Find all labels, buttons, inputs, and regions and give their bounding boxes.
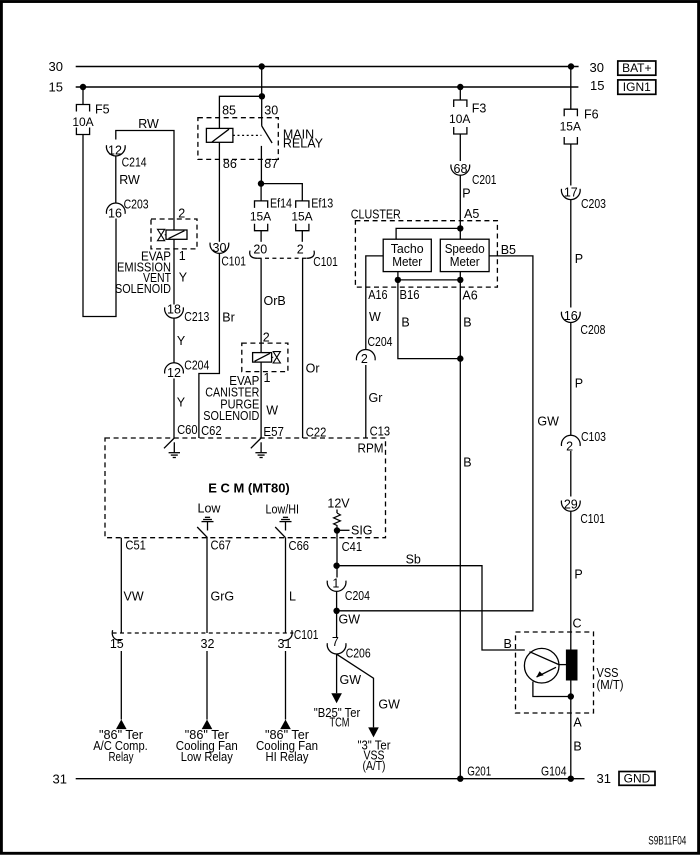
svg-text:31: 31 [597, 771, 611, 786]
junction bus15 / F3 [457, 84, 463, 90]
svg-text:C101: C101 [313, 255, 338, 269]
connector C101 pin 29 [561, 501, 580, 512]
wire C101-29 to VSS P [570, 512, 572, 651]
vent solenoid valve symbol [158, 229, 165, 240]
wire to Ef14 [260, 184, 262, 201]
svg-text:P: P [575, 252, 583, 266]
svg-text:Relay: Relay [109, 750, 135, 764]
wire A6 B down to G201 [459, 280, 461, 779]
svg-text:29: 29 [564, 498, 578, 512]
svg-text:C101: C101 [221, 255, 246, 269]
wire C204-2 to ECM C13 Gr [365, 365, 367, 438]
wire C206 to TCM [336, 654, 338, 693]
IGN1 terminal box [618, 80, 656, 94]
svg-text:B: B [401, 316, 409, 330]
wire C67 GrG [206, 538, 208, 633]
svg-text:GND: GND [624, 771, 651, 785]
wire F5 down and u-turn up to C203 [83, 135, 116, 317]
vent solenoid coil [166, 230, 187, 239]
svg-text:1: 1 [264, 371, 271, 385]
wire bus30 to fuse F6 [570, 67, 572, 110]
VSS collector bar [566, 650, 577, 680]
svg-text:C22: C22 [306, 426, 327, 440]
svg-text:W: W [369, 310, 381, 324]
wire C214 to C203 RW [115, 156, 117, 203]
svg-text:20: 20 [253, 243, 267, 257]
svg-text:86: 86 [223, 157, 237, 171]
svg-text:B16: B16 [400, 288, 420, 302]
tacho meter box [383, 239, 431, 271]
svg-text:E57: E57 [263, 425, 284, 439]
svg-text:B5: B5 [501, 243, 516, 257]
EVAP emission vent solenoid dashed box [151, 219, 197, 249]
purge solenoid valve symbol [273, 352, 280, 363]
wire C208 to C103 P [570, 323, 572, 435]
svg-text:15: 15 [49, 80, 63, 95]
connector C213 pin 18 [165, 307, 184, 318]
svg-text:C101: C101 [580, 512, 605, 526]
svg-text:F6: F6 [584, 108, 599, 122]
relay switch blade [262, 126, 272, 143]
connector C204 pin 12 [165, 363, 184, 374]
VSS transistor [524, 648, 559, 683]
svg-text:C203: C203 [581, 197, 606, 211]
cluster dashed box [355, 221, 497, 287]
connector C201 pin 68 [451, 165, 470, 176]
bus 31 (GND rail) [76, 778, 585, 780]
wire to AC relay [120, 651, 122, 720]
junction SIG [334, 527, 340, 533]
wire bus15 to fuse F5 [82, 87, 84, 105]
svg-text:85: 85 [222, 104, 236, 118]
svg-text:Y: Y [177, 396, 186, 410]
wire C41 down [336, 538, 338, 578]
svg-text:C62: C62 [201, 424, 222, 438]
svg-text:P: P [462, 187, 470, 201]
svg-text:RW: RW [119, 173, 140, 187]
wire Ef13 to C101 pin 2 [301, 231, 303, 242]
connector C101 pins 20/2 dashed [250, 251, 258, 259]
svg-text:Low: Low [198, 502, 222, 516]
svg-text:HI Relay: HI Relay [266, 750, 310, 764]
svg-text:(A/T): (A/T) [363, 759, 386, 773]
wire C206 branch to VSS AT [337, 654, 374, 727]
svg-text:SOLENOID: SOLENOID [115, 282, 171, 296]
connector C203 pin 17 [561, 189, 580, 200]
svg-text:2: 2 [263, 331, 270, 345]
svg-text:16: 16 [564, 309, 578, 323]
junction bus30 / relay 30 [259, 63, 265, 69]
wire to cooling fan hi relay [285, 651, 287, 720]
wire vent pin1 to C213 Y [173, 239, 175, 304]
wire C103 to C101-29 [570, 451, 572, 497]
svg-text:B: B [504, 637, 512, 651]
svg-text:F3: F3 [472, 101, 487, 115]
svg-text:GW: GW [339, 612, 361, 626]
svg-text:Y: Y [179, 271, 188, 285]
wire C51 VW [120, 538, 122, 633]
svg-text:Meter: Meter [450, 255, 480, 269]
svg-text:GW: GW [537, 415, 559, 429]
svg-text:(M/T): (M/T) [597, 678, 624, 692]
svg-text:IGN1: IGN1 [623, 80, 651, 94]
svg-text:Ef14: Ef14 [270, 197, 292, 211]
svg-text:L: L [289, 590, 296, 604]
wire bus15 to fuse F3 [459, 87, 461, 100]
junction bus30 / F6 [568, 63, 574, 69]
junction 87 split [258, 180, 264, 186]
svg-text:W: W [266, 404, 278, 418]
svg-text:RW: RW [138, 117, 159, 131]
svg-text:C51: C51 [125, 539, 146, 553]
connector C203 pin 16 [106, 203, 125, 214]
tacho left pin to A16 [366, 256, 383, 287]
GND terminal box [619, 772, 655, 786]
BAT+ terminal box [618, 61, 656, 75]
svg-text:P: P [575, 376, 583, 390]
svg-text:S9B11F04: S9B11F04 [648, 836, 686, 848]
wire C66 L [285, 538, 287, 633]
wire Br from C101-30 to ECM C62 [199, 254, 220, 438]
svg-text:SIG: SIG [351, 524, 373, 538]
connector C101 pin 30 [210, 243, 229, 254]
svg-text:C201: C201 [472, 173, 497, 187]
relay actuation dotted link [233, 134, 262, 136]
svg-text:BAT+: BAT+ [622, 61, 651, 75]
connector C103 pin 2 [561, 435, 580, 446]
bus 15 (IGN1 rail) [76, 86, 579, 88]
purge solenoid coil [253, 353, 272, 363]
svg-text:C208: C208 [580, 323, 605, 337]
svg-text:E C M (MT80): E C M (MT80) [208, 480, 290, 495]
fuse F6 15A [564, 109, 577, 144]
junction tacho bottom [395, 277, 401, 283]
svg-text:17: 17 [564, 186, 578, 200]
svg-text:C203: C203 [124, 198, 149, 212]
svg-text:C204: C204 [345, 589, 370, 603]
wire F3 to C201 [459, 134, 461, 161]
svg-text:Br: Br [222, 311, 235, 325]
wire A16 W to C204-2 [365, 287, 367, 349]
svg-text:A5: A5 [464, 207, 479, 221]
svg-text:2: 2 [178, 206, 185, 220]
svg-text:C204: C204 [368, 335, 393, 349]
connector C206 pin 7 [327, 643, 346, 654]
wire relay coil 86 down to C101 [218, 142, 220, 242]
junction G201 [457, 776, 463, 782]
ECM pin C60 switch and ground [164, 438, 174, 448]
svg-text:TCM: TCM [330, 716, 350, 730]
relay coil [206, 128, 233, 142]
svg-text:10A: 10A [449, 112, 470, 126]
svg-text:31: 31 [53, 771, 67, 786]
wire Sb to transistor base [337, 566, 525, 650]
svg-text:G201: G201 [467, 765, 491, 779]
cluster bottom link [397, 272, 399, 280]
svg-text:C13: C13 [370, 424, 391, 438]
svg-text:C204: C204 [184, 358, 209, 372]
fuse Ef14 15A [255, 201, 268, 231]
svg-text:15A: 15A [250, 209, 271, 223]
wire C201 to cluster A5 P [459, 176, 461, 240]
svg-text:Tacho: Tacho [391, 242, 424, 256]
svg-text:1: 1 [179, 249, 186, 263]
svg-text:C41: C41 [342, 540, 363, 554]
svg-text:15: 15 [110, 637, 124, 651]
junction relay branch 85 [259, 93, 265, 99]
svg-text:C: C [573, 616, 582, 630]
wire A5 to tacho [396, 228, 460, 239]
wire Or C101-2 to ECM C22 [302, 258, 304, 438]
svg-text:12V: 12V [327, 497, 350, 511]
wire W purge to ECM E57 [260, 362, 262, 438]
fuse F3 10A [454, 100, 467, 134]
svg-text:RELAY: RELAY [283, 137, 324, 151]
svg-text:CLUSTER: CLUSTER [351, 207, 401, 221]
svg-text:C66: C66 [289, 539, 310, 553]
svg-text:B: B [463, 456, 471, 470]
svg-text:Sb: Sb [406, 553, 421, 567]
connector C204 pin 2 [356, 350, 375, 361]
svg-text:Y: Y [177, 334, 186, 348]
main relay dashed box [198, 118, 278, 160]
svg-text:B: B [463, 316, 471, 330]
svg-text:18: 18 [167, 302, 181, 316]
svg-text:30: 30 [590, 60, 604, 75]
svg-text:C60: C60 [177, 423, 198, 437]
junction bus15 / F5 [80, 84, 86, 90]
junction Sb [333, 563, 339, 569]
svg-text:Low Relay: Low Relay [181, 750, 234, 764]
svg-text:1: 1 [332, 576, 339, 590]
svg-text:15A: 15A [291, 209, 312, 223]
svg-text:A16: A16 [368, 288, 387, 302]
svg-text:GrG: GrG [211, 590, 235, 604]
svg-text:7: 7 [332, 635, 339, 649]
wire C203-17 to C208 P [570, 200, 572, 308]
ECM dashed box [105, 438, 386, 538]
svg-text:GW: GW [378, 697, 400, 711]
svg-text:C67: C67 [211, 538, 232, 552]
wire B16 B down-right [398, 280, 460, 359]
wire relay 87 down [260, 146, 262, 184]
svg-text:87: 87 [264, 157, 278, 171]
svg-text:15: 15 [590, 78, 604, 93]
connector C208 pin 16 [561, 312, 580, 323]
svg-text:30: 30 [213, 241, 227, 255]
svg-text:Meter: Meter [392, 255, 422, 269]
svg-text:Low/HI: Low/HI [266, 503, 300, 517]
svg-text:GW: GW [340, 673, 362, 687]
wire F6 to C203-17 [570, 144, 572, 186]
svg-text:C213: C213 [184, 310, 209, 324]
svg-text:31: 31 [278, 637, 292, 651]
connector C204 pin 1 [327, 581, 346, 592]
VSS emitter exit [533, 682, 571, 697]
svg-text:Or: Or [306, 362, 320, 376]
wire VSS A to G104 [570, 680, 572, 779]
bus 30 (BAT+ rail) [76, 66, 579, 68]
svg-text:C206: C206 [346, 647, 371, 661]
junction emitter / A wire [568, 693, 574, 699]
VSS MT dashed box [516, 632, 594, 713]
svg-text:16: 16 [108, 206, 122, 220]
svg-text:VW: VW [124, 590, 144, 604]
svg-text:F5: F5 [95, 103, 110, 117]
junction A5 split [457, 225, 463, 231]
EVAP canister purge solenoid dashed box [242, 343, 288, 372]
junction speedo bottom [457, 277, 463, 283]
wire B5 GW route [340, 256, 533, 611]
svg-text:SOLENOID: SOLENOID [203, 409, 259, 423]
svg-text:30: 30 [49, 59, 63, 74]
svg-text:30: 30 [264, 104, 278, 118]
fuse Ef13 15A [296, 201, 309, 231]
wire RW bracket to vent solenoid pin 2 [116, 131, 174, 231]
svg-text:OrB: OrB [264, 294, 286, 308]
wire branch to Ef13 [261, 184, 302, 201]
svg-text:P: P [574, 568, 582, 582]
junction B16 join A6 [457, 355, 463, 361]
svg-text:Ef13: Ef13 [311, 197, 333, 211]
wire branch to relay coil 85 [219, 96, 262, 128]
junction G104 [568, 776, 574, 782]
svg-text:C214: C214 [122, 155, 147, 169]
speedo meter box [440, 239, 489, 271]
wire OrB C101-20 down [260, 258, 262, 352]
svg-text:A6: A6 [462, 289, 477, 303]
connector C101 bottom row [112, 630, 121, 640]
svg-text:12: 12 [167, 366, 181, 380]
wire C213 to C204 Y [173, 318, 175, 362]
svg-text:Speedo: Speedo [445, 242, 485, 256]
wire Ef14 to C101 pin 20 [260, 231, 262, 242]
ECM pin E57 switch and ground [251, 438, 261, 448]
junction GW join [333, 608, 339, 614]
wire bus30 to relay switch 30 [261, 67, 263, 126]
wire to cooling fan low relay [206, 651, 208, 720]
svg-text:68: 68 [454, 162, 468, 176]
svg-text:10A: 10A [72, 115, 93, 129]
svg-text:B: B [573, 740, 581, 754]
svg-text:2: 2 [566, 440, 573, 454]
svg-text:RPM: RPM [358, 441, 384, 455]
svg-text:A: A [573, 716, 582, 730]
svg-text:Gr: Gr [369, 391, 383, 405]
svg-text:C101: C101 [294, 628, 319, 642]
wire C204 to ECM C60 Y [173, 379, 175, 439]
svg-text:2: 2 [361, 352, 368, 366]
svg-text:2: 2 [297, 243, 304, 257]
svg-text:12: 12 [108, 144, 122, 158]
svg-text:G104: G104 [541, 765, 567, 779]
connector C214 pin 12 [106, 145, 125, 156]
svg-text:15A: 15A [560, 120, 581, 134]
fuse F5 10A [76, 105, 89, 135]
wire C204-1 down [336, 592, 338, 638]
svg-text:32: 32 [201, 637, 215, 651]
svg-text:C103: C103 [581, 430, 606, 444]
